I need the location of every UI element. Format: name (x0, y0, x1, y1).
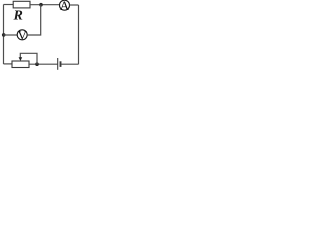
ammeter U: circle (60, 0, 70, 10)
battery cell: long plate (57, 58, 59, 70)
voltmeter: circle (17, 30, 27, 40)
svg-text:R: R (13, 9, 23, 24)
wire: voltmeter branch right + vertical up to junction (27, 5, 41, 35)
node junction dot bottom (35, 62, 39, 66)
svg-text:V: V (18, 28, 28, 43)
wire: wiper tap from junction up and left (20, 53, 37, 64)
svg-text:A: A (60, 0, 70, 13)
battery cell: short thick plate (60, 61, 62, 67)
wiper arrowhead (19, 57, 23, 61)
wire: rheostat to bottom junction (29, 63, 58, 65)
rheostat box (12, 61, 29, 68)
wire: left vertical rail (3, 5, 5, 65)
wire: right vertical rail (78, 5, 80, 64)
node junction dot on left rail (2, 33, 6, 37)
wire: ammeter to top-right corner (70, 4, 79, 6)
wire: voltmeter branch left (4, 34, 18, 36)
wire: battery to bottom-right corner (61, 63, 78, 65)
wire: top rail left segment to resistor (4, 4, 14, 6)
resistor R (13, 1, 30, 8)
wire: bottom-left from rail to rheostat (4, 63, 13, 65)
node junction dot top (39, 3, 43, 7)
wire: resistor to junction to ammeter (30, 4, 60, 6)
